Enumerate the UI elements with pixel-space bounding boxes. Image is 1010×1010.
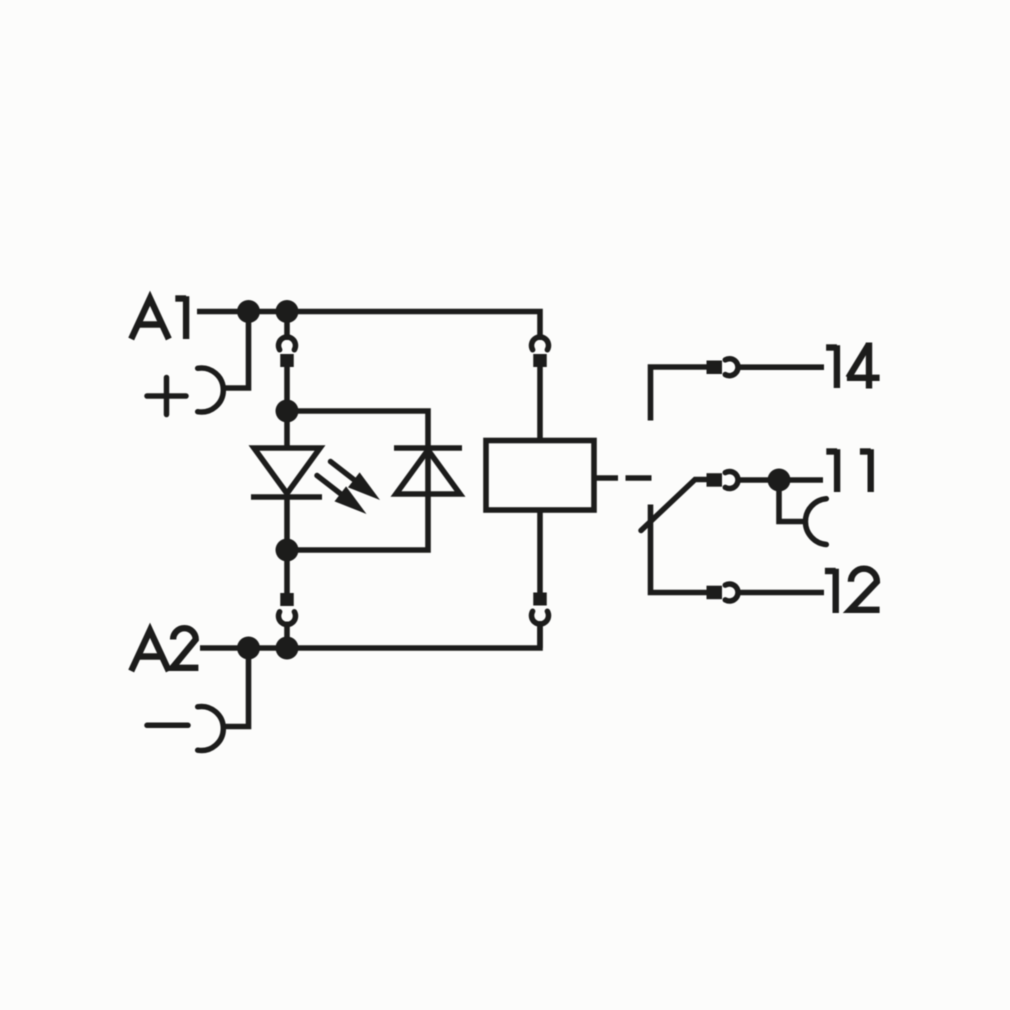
node terminal 11 junction dot bbox=[768, 469, 791, 492]
wire coil branch bottom bbox=[537, 510, 543, 593]
wire coil branch bottom stub bbox=[537, 621, 543, 648]
wire A2 down to minus clamp bbox=[224, 648, 249, 727]
wire contact 14 fixed stub bbox=[651, 367, 707, 421]
clamp terminal 11 (cage clamp arc, open right) bbox=[805, 499, 826, 545]
terminal label 12 bbox=[825, 569, 880, 613]
terminal label A2 bbox=[131, 628, 198, 671]
freewheeling diode D2 triangle bbox=[396, 450, 460, 494]
terminal label A1 bbox=[131, 296, 186, 339]
node A1 junction dot right bbox=[276, 300, 299, 323]
node LED branch bottom dot bbox=[276, 539, 299, 562]
plug connector pin (contact 11) bbox=[707, 473, 723, 487]
wire LED branch top stub bbox=[284, 312, 290, 412]
LED D1 cathode bar bbox=[251, 494, 322, 500]
wire 11 down to clamp bbox=[779, 480, 806, 522]
wire contact 12 fixed stub bbox=[651, 505, 707, 593]
node A2 junction dot right bbox=[276, 637, 299, 660]
terminal label 11 bbox=[826, 449, 870, 492]
clamp terminal minus (cage clamp arc) bbox=[198, 707, 224, 751]
clamp terminal plus (cage clamp arc) bbox=[198, 368, 224, 412]
wire A2 horizontal bbox=[200, 622, 540, 648]
plug connector pin (contact 14) bbox=[707, 361, 723, 375]
wire A1 down to plus clamp bbox=[224, 312, 249, 389]
plug connector socket (contact 12, open left) bbox=[725, 584, 738, 601]
plug connector socket (LED branch bottom, open up) bbox=[279, 612, 296, 625]
minus sign bbox=[147, 723, 188, 729]
plug connector socket (LED branch top, open down) bbox=[279, 337, 296, 350]
node A1 junction dot left bbox=[237, 300, 260, 323]
node LED branch top dot bbox=[276, 400, 299, 423]
plug connector socket (coil branch top, open down) bbox=[532, 337, 549, 350]
plug connector pin (coil branch top) bbox=[533, 354, 547, 367]
plus sign bbox=[147, 378, 186, 415]
wire LED branch bottom stub bbox=[284, 550, 290, 648]
plug connector pin (contact 12) bbox=[707, 586, 723, 600]
plug connector socket (coil branch bottom, open up) bbox=[532, 611, 549, 624]
wire to terminal 14 bbox=[739, 364, 825, 370]
relay coil K1 bbox=[486, 441, 594, 511]
wire parallel loop (top, diode branch, bottom) bbox=[287, 411, 428, 550]
wire to terminal 11 bbox=[739, 477, 824, 483]
wire LED vertical bbox=[284, 411, 290, 550]
freewheeling diode D2 cathode bar bbox=[394, 445, 462, 451]
plug connector pin (LED branch bottom) bbox=[280, 593, 294, 606]
plug connector socket (contact 11, open left) bbox=[725, 472, 738, 489]
plug connector pin (coil branch bottom) bbox=[533, 593, 547, 606]
dashed actuation line from coil to contact bbox=[597, 475, 652, 481]
wire coil branch top bbox=[537, 366, 543, 441]
plug connector socket (contact 14, open left) bbox=[725, 359, 738, 376]
plug connector pin (LED branch top) bbox=[280, 354, 294, 367]
LED light arrow 2 bbox=[317, 476, 367, 515]
terminal label 14 bbox=[826, 343, 880, 389]
wire to terminal 12 bbox=[739, 590, 825, 596]
LED D1 triangle bbox=[254, 448, 320, 494]
LED light arrow 1 bbox=[331, 462, 381, 501]
node A2 junction dot left bbox=[237, 637, 260, 660]
wire A1 horizontal to coil branch corner bbox=[197, 312, 540, 341]
switch moving contact lever bbox=[641, 480, 707, 531]
